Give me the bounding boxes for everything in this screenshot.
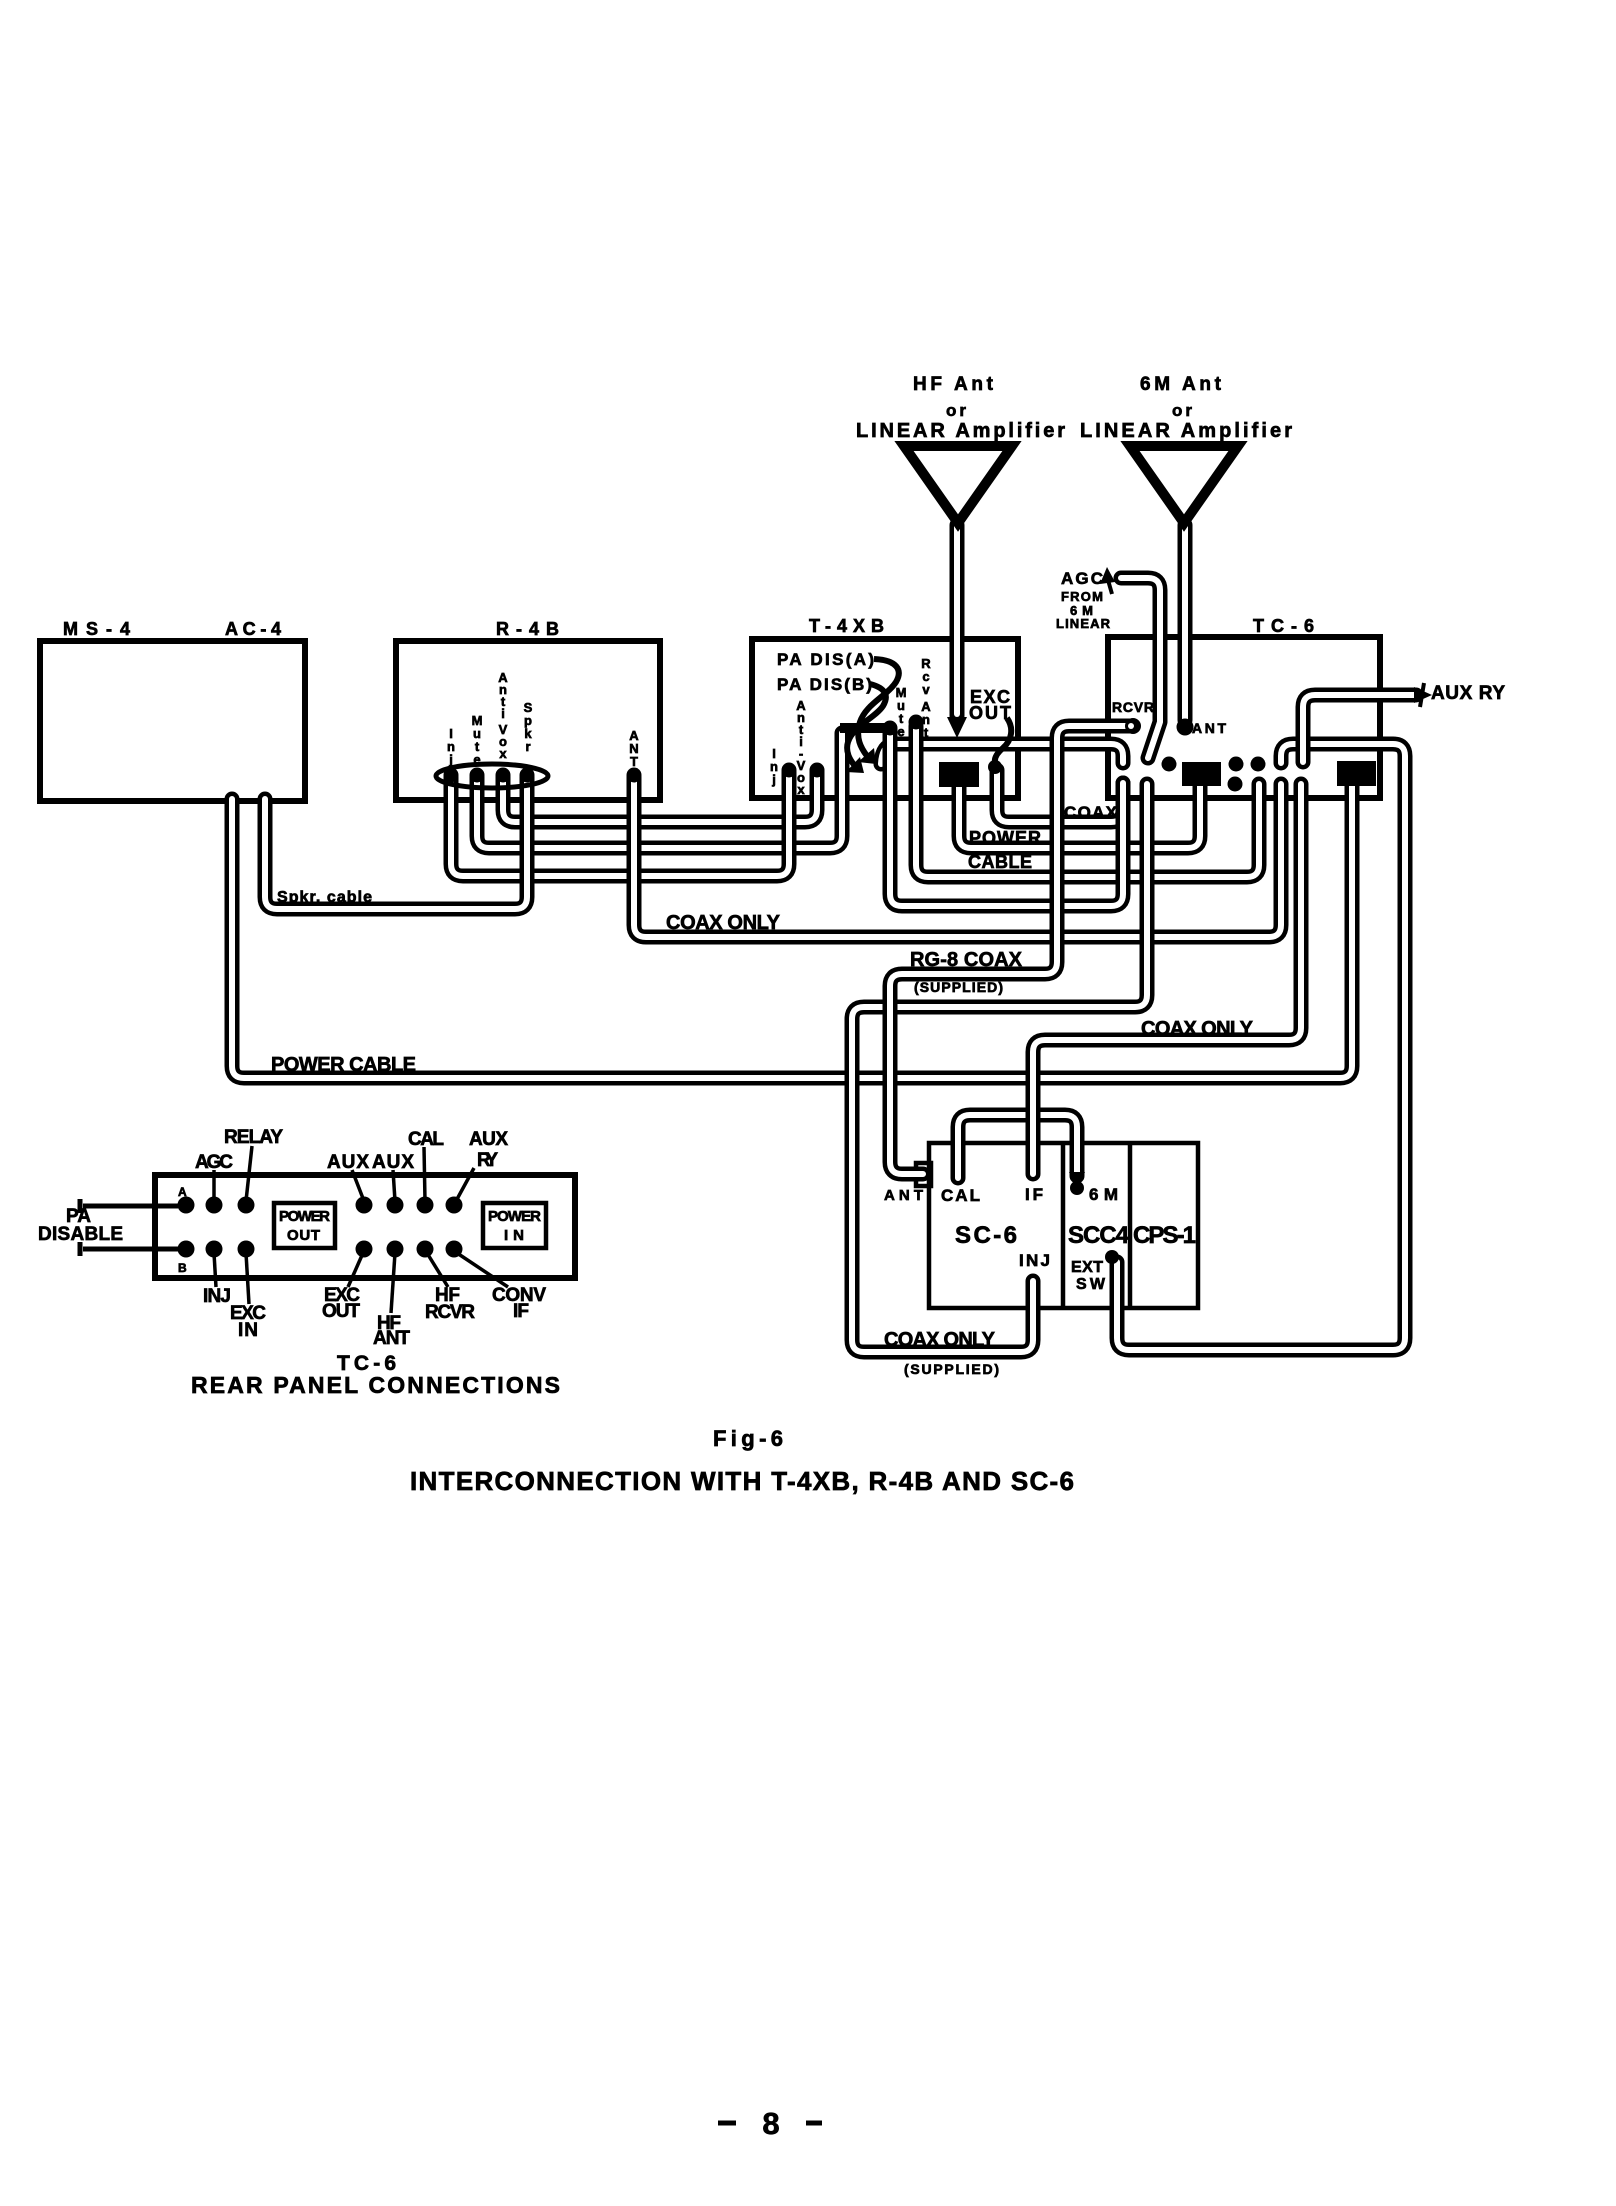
svg-text:B: B: [178, 1261, 187, 1275]
svg-text:Inj: Inj: [447, 726, 455, 767]
T-4XB power connector: [939, 762, 979, 787]
svg-text:POWER: POWER: [969, 828, 1041, 848]
svg-text:(SUPPLIED): (SUPPLIED): [904, 1361, 999, 1377]
svg-text:CAL: CAL: [941, 1186, 980, 1205]
svg-text:CABLE: CABLE: [968, 852, 1032, 872]
svg-text:SC-6: SC-6: [955, 1222, 1017, 1249]
TC-6 top row dot 3: [1162, 757, 1177, 772]
svg-text:COAX ONLY: COAX ONLY: [1141, 1018, 1254, 1040]
svg-text:IF: IF: [513, 1301, 529, 1322]
svg-text:AUX: AUX: [327, 1152, 369, 1173]
svg-text:SCC4: SCC4: [1068, 1222, 1130, 1249]
svg-text:DISABLE: DISABLE: [38, 1224, 123, 1245]
svg-text:OUT: OUT: [969, 703, 1011, 723]
svg-text:(SUPPLIED): (SUPPLIED): [914, 979, 1003, 995]
svg-text:CPS-1: CPS-1: [1133, 1222, 1196, 1249]
TC-6 bottom row dot: [1228, 777, 1243, 792]
svg-text:AC-4: AC-4: [225, 619, 281, 639]
svg-text:RCVR: RCVR: [425, 1302, 475, 1323]
TC-6 power connector 1: [1182, 762, 1221, 786]
TC-6 top row dot 4: [1229, 757, 1244, 772]
wire T-4XB Rcv Ant to TC-6 stub5: [916, 726, 1259, 877]
svg-text:A: A: [178, 1185, 187, 1199]
svg-text:RG-8 COAX: RG-8 COAX: [910, 949, 1023, 971]
svg-text:LINEAR: LINEAR: [1056, 616, 1111, 631]
svg-text:Spkr: Spkr: [524, 700, 533, 754]
callout HF ANT: [391, 1253, 395, 1313]
callout CONV IF: [457, 1253, 508, 1287]
wire COAX ONLY SC-6 IF to TC-6: [1033, 784, 1301, 1174]
callout INJ: [214, 1253, 216, 1287]
callout AUX RY: [456, 1168, 474, 1201]
TC-6 ANT dot: [1177, 719, 1194, 736]
svg-text:TC-6: TC-6: [1253, 616, 1314, 636]
svg-text:R-4B: R-4B: [496, 619, 559, 639]
callout HF RCVR: [427, 1253, 448, 1287]
box R-4B: [396, 641, 660, 800]
R-4B Inj dot: [444, 768, 459, 783]
wire EXC OUT coax to TC-6: [997, 770, 1123, 822]
svg-text:HF Ant: HF Ant: [913, 374, 994, 395]
wire AGC from 6M linear: [1121, 578, 1160, 758]
svg-text:Anti-Vox: Anti-Vox: [796, 698, 806, 797]
svg-text:ANT: ANT: [373, 1328, 410, 1349]
callout EXC IN: [246, 1253, 249, 1304]
svg-text:COAX ONLY: COAX ONLY: [884, 1329, 996, 1351]
TC-6 RCVR plug cap: [1125, 718, 1141, 734]
T-4XB PA DIS(B) curve: [847, 684, 886, 766]
svg-text:RELAY: RELAY: [224, 1127, 283, 1148]
svg-text:COAX ONLY: COAX ONLY: [666, 912, 781, 934]
svg-text:AUX: AUX: [372, 1152, 414, 1173]
box TC-6: [1108, 637, 1380, 798]
wire COAX ONLY supplied TC-6 to SC-6 INJ: [852, 784, 1147, 1352]
svg-text:SW: SW: [1076, 1276, 1106, 1293]
SC-6 EXT SW dot: [1105, 1250, 1119, 1264]
svg-text:LINEAR Amplifier: LINEAR Amplifier: [856, 420, 1065, 442]
T-4XB PA DIS(A) curve: [858, 659, 899, 756]
wire Spkr cable R-4B to AC-4: [265, 777, 527, 909]
wire R-4B AntiVox to T-4XB AntiVox: [503, 771, 817, 822]
T-4XB Mute stub: [840, 723, 886, 733]
callout RELAY: [246, 1146, 252, 1201]
svg-text:ANT: ANT: [629, 728, 639, 769]
svg-text:AUX: AUX: [469, 1129, 508, 1150]
rear panel dot row top: [178, 1197, 195, 1214]
rear panel box: [155, 1175, 575, 1278]
wire AUX RY: [1303, 695, 1416, 762]
wire R-4B Inj to T-4XB Inj: [451, 772, 789, 876]
svg-text:or: or: [946, 401, 966, 420]
wire RG-8 COAX TC-6 RCVR to SC-6 ANT: [890, 726, 1132, 1174]
wire HF antenna lead: [950, 525, 965, 716]
svg-text:IF: IF: [1025, 1185, 1043, 1204]
rear panel dot row bottom: [178, 1241, 195, 1258]
wire 6M antenna lead: [1178, 525, 1193, 720]
SC-6 ANT stub: [916, 1163, 931, 1186]
POWER IN connector box: [483, 1203, 546, 1248]
svg-text:LINEAR Amplifier: LINEAR Amplifier: [1080, 420, 1292, 442]
T-4XB EXC OUT pointer curve: [995, 718, 1011, 763]
box SC-6 / SCC4 / CPS-1: [929, 1143, 1198, 1308]
antenna HF triangle: [904, 446, 1012, 523]
svg-text:EXT: EXT: [1071, 1259, 1103, 1276]
svg-text:RCVR: RCVR: [1112, 699, 1154, 715]
T-4XB Inj dot: [782, 763, 797, 778]
svg-text:8: 8: [762, 2106, 779, 2141]
R-4B ANT dot: [627, 768, 642, 783]
box MS-4/AC-4: [40, 641, 305, 801]
R-4B connector oval: [436, 764, 548, 788]
svg-text:AGC: AGC: [195, 1152, 233, 1173]
svg-text:OUT: OUT: [322, 1301, 360, 1322]
svg-text:MS-4: MS-4: [63, 619, 130, 639]
wire T-4XB Rcv Ant arrow region to TC-6 hole: [881, 744, 1123, 764]
svg-text:PA DIS(A): PA DIS(A): [777, 650, 874, 669]
svg-text:6M Ant: 6M Ant: [1140, 374, 1222, 395]
wire COAX ONLY R-4B ANT to TC-6: [634, 777, 1281, 937]
svg-text:ANT: ANT: [884, 1187, 923, 1204]
svg-text:OUT: OUT: [287, 1227, 320, 1244]
svg-text:POWER CABLE: POWER CABLE: [271, 1054, 416, 1076]
TC-6 top row dot 5: [1251, 757, 1266, 772]
svg-text:FROM: FROM: [1061, 589, 1103, 604]
POWER OUT connector box: [274, 1203, 335, 1248]
wire CAL to 6M jumper: [958, 1115, 1077, 1178]
svg-text:AUX RY: AUX RY: [1431, 683, 1505, 704]
wire TC-6 loop to EXT SW: [1117, 744, 1405, 1350]
SC-6 6M arrow and dot: [1069, 1172, 1085, 1190]
svg-text:RY: RY: [477, 1150, 498, 1171]
TC-6 power connector 2: [1337, 761, 1376, 786]
svg-text:AGC: AGC: [1061, 569, 1103, 588]
svg-text:Inj: Inj: [770, 746, 778, 787]
PA DISABLE leader lines: [80, 1199, 178, 1256]
svg-text:PA DIS(B): PA DIS(B): [777, 675, 872, 694]
svg-text:Mute: Mute: [896, 685, 907, 739]
svg-text:Fig-6: Fig-6: [713, 1426, 783, 1451]
svg-text:Mute: Mute: [472, 713, 483, 767]
callout AGC: [212, 1170, 216, 1201]
svg-text:6M: 6M: [1089, 1185, 1118, 1204]
svg-text:AntiVox: AntiVox: [498, 670, 508, 761]
svg-text:POWER: POWER: [279, 1208, 330, 1225]
T-4XB Rcv Ant dot: [909, 715, 924, 730]
T-4XB AntiVox dot: [810, 763, 825, 778]
svg-text:ANT: ANT: [1192, 720, 1226, 736]
svg-text:CAL: CAL: [408, 1129, 444, 1150]
R-4B Spkr dot: [520, 768, 535, 783]
svg-text:INJ: INJ: [203, 1286, 231, 1307]
callout AUX 1: [352, 1170, 364, 1201]
callout CAL: [424, 1147, 425, 1201]
T-4XB EXC OUT dot: [988, 760, 1002, 774]
svg-text:INJ: INJ: [1019, 1251, 1050, 1270]
R-4B AntiVox dot: [496, 768, 511, 783]
R-4B Mute dot: [470, 768, 485, 783]
svg-text:T-4XB: T-4XB: [809, 616, 884, 636]
AGC arrow: [1100, 567, 1115, 584]
wire R-4B Mute to T-4XB Mute stub: [477, 733, 842, 848]
svg-text:POWER: POWER: [488, 1208, 541, 1225]
svg-text:Spkr. cable: Spkr. cable: [277, 889, 372, 906]
svg-text:REAR PANEL CONNECTIONS: REAR PANEL CONNECTIONS: [191, 1372, 560, 1398]
callout AUX 2: [393, 1170, 395, 1201]
AUX RY arrow: [1414, 687, 1432, 703]
wire POWER CABLE AC-4 to TC-6: [232, 785, 1352, 1078]
svg-text:IN: IN: [504, 1227, 524, 1244]
antenna 6M triangle: [1130, 446, 1238, 523]
svg-text:IN: IN: [238, 1320, 258, 1341]
svg-text:or: or: [1172, 401, 1192, 420]
callout EXC OUT: [348, 1253, 363, 1287]
HF antenna arrowhead into T-4XB: [947, 717, 967, 738]
wire T-4XB Mute dot to TC-6: [890, 730, 1123, 906]
wire power cable T-4XB to TC-6 POWER: [959, 785, 1200, 848]
svg-text:INTERCONNECTION WITH T-4XB,: INTERCONNECTION WITH T-4XB, R-4B AND SC-…: [410, 1466, 1074, 1496]
box T-4XB: [752, 639, 1018, 798]
